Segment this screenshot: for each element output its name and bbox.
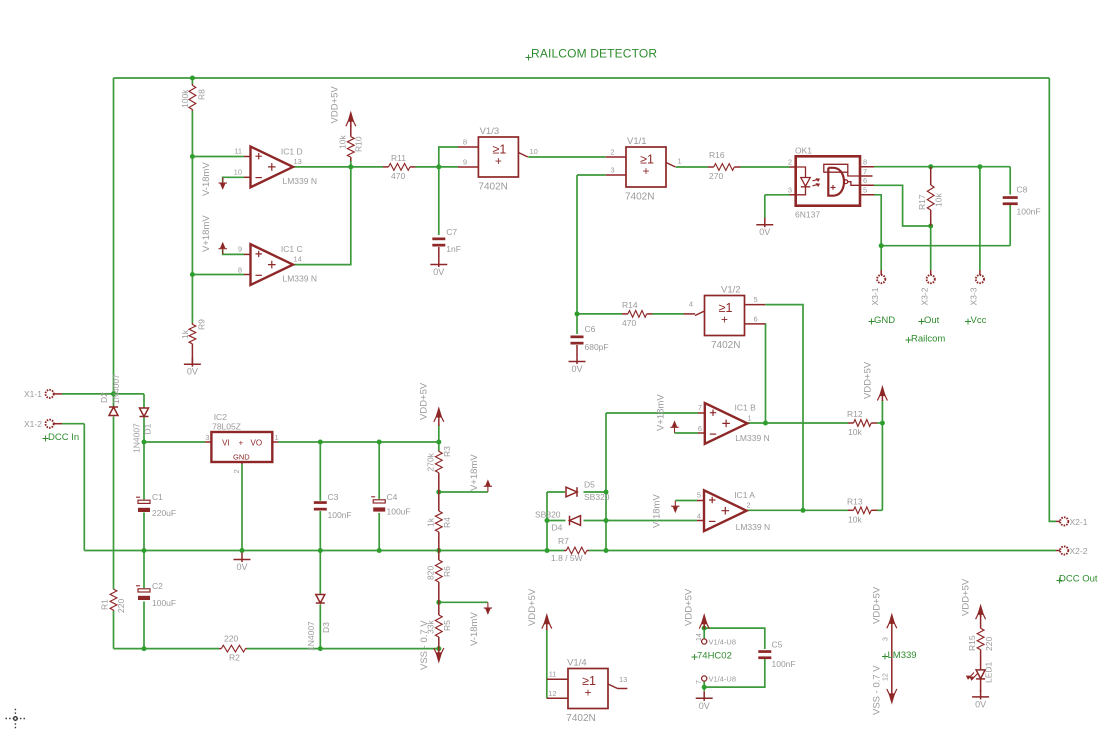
junction 74HC02 gnd [702, 685, 707, 690]
wire D2 top lead [113, 394, 115, 407]
svg-text:Railcom: Railcom [911, 334, 945, 345]
resistor R2 [219, 645, 247, 652]
svg-text:R14: R14 [622, 300, 638, 310]
wire V1/2 pin 5 to R13 node [765, 305, 803, 511]
svg-text:100uF: 100uF [387, 507, 411, 517]
ground under C6 [569, 355, 586, 365]
svg-text:100uF: 100uF [152, 598, 176, 608]
svg-text:10k: 10k [934, 193, 944, 207]
svg-text:VO: VO [251, 439, 263, 448]
svg-text:C2: C2 [152, 581, 163, 591]
wire R11 right [416, 166, 439, 168]
wire IC1C output [293, 167, 351, 265]
svg-text:X3-3: X3-3 [969, 287, 979, 305]
svg-text:VDD+5V: VDD+5V [527, 588, 538, 626]
svg-text:R7: R7 [558, 536, 569, 546]
svg-text:X1-1: X1-1 [24, 389, 42, 399]
optocoupler OK1 6N137 [790, 156, 874, 205]
connector pad X1-1 [46, 390, 54, 398]
svg-text:100nF: 100nF [328, 510, 352, 520]
wire C3 top [319, 442, 321, 501]
svg-text:1k: 1k [426, 517, 436, 527]
junction C3 mid rail [318, 548, 323, 553]
svg-text:1: 1 [748, 414, 752, 423]
wire VO rail [278, 441, 439, 443]
supply VSS arrow under R5 [434, 648, 444, 662]
wire D3 top [319, 551, 321, 595]
diode D5 SB320 [566, 487, 577, 497]
resistor R17 [927, 167, 934, 226]
wire R14 left [577, 313, 622, 315]
wire C7 bottom lead [438, 247, 440, 258]
svg-text:8: 8 [238, 266, 242, 275]
junction X3-1 node [879, 243, 884, 248]
svg-text:Vcc: Vcc [971, 315, 987, 326]
op-amp IC1C [251, 244, 294, 285]
wire 74HC02 gnd pin [703, 681, 705, 691]
wire IC1D output [293, 166, 351, 168]
junction D3 bottom rail [318, 646, 323, 651]
svg-text:9: 9 [238, 245, 242, 254]
wire V+18mV stub [439, 491, 488, 493]
connector pad X3-3 [976, 275, 984, 283]
svg-text:R8: R8 [197, 89, 207, 100]
origin cross Out [919, 319, 925, 325]
wire VDD shaft above ladder [438, 425, 440, 443]
svg-text:12: 12 [548, 689, 556, 698]
svg-text:VDD+5V: VDD+5V [684, 588, 695, 626]
wire X1-1 junction to D1 [114, 393, 145, 395]
pin stub V1/4 pin 11 [547, 678, 568, 680]
sheet origin crosshair [6, 709, 26, 729]
svg-text:VDD+5V: VDD+5V [863, 361, 874, 399]
svg-text:C1: C1 [152, 492, 163, 502]
net label arrow V+18mV at R3 R4 node [484, 481, 492, 492]
origin cross DCC Out [1057, 578, 1063, 584]
pin stub IC1C pin 9 [244, 253, 251, 255]
svg-text:1.8 / 5W: 1.8 / 5W [551, 553, 583, 563]
svg-text:V1/4-U8: V1/4-U8 [709, 675, 737, 684]
supply VDD+5V arrow LM339 power [887, 615, 897, 658]
junction R6 R5 node [436, 600, 441, 605]
resistor R9 [189, 323, 196, 364]
svg-text:V1/4: V1/4 [567, 658, 587, 669]
svg-text:V-18mV: V-18mV [201, 162, 212, 196]
wire X1-2 stub [62, 423, 84, 425]
wire D2 to R1 [113, 417, 115, 590]
svg-text:7402N: 7402N [478, 182, 507, 193]
wire node A vertical [546, 492, 548, 551]
wire V1/1 pin 3 left [577, 174, 606, 176]
wire V1/4 inputs to VDD [546, 629, 548, 698]
svg-text:0V: 0V [433, 267, 444, 277]
wire IC1A output [744, 509, 848, 511]
wire mid rail left [84, 550, 564, 552]
wire IC1B pin 6 stub [675, 432, 699, 434]
svg-text:3: 3 [610, 166, 614, 175]
svg-text:LM339 N: LM339 N [283, 274, 318, 284]
pin stub V1/2 pin 5 [745, 304, 766, 306]
wire R11 left [351, 166, 383, 168]
svg-text:1N4007: 1N4007 [111, 374, 121, 404]
supply VDD+5V arrow above V1/4 [542, 615, 552, 630]
svg-text:V1/2: V1/2 [721, 285, 741, 296]
junction R10 output node [348, 164, 353, 169]
junction C4 mid rail [377, 548, 382, 553]
junction R3 R4 node [436, 490, 441, 495]
pin stub X3-1 [880, 270, 882, 275]
wire IC1B output to R12 [745, 422, 849, 424]
svg-text:5: 5 [754, 295, 758, 304]
svg-text:220: 220 [984, 637, 994, 651]
junction node A D4 [545, 518, 550, 523]
svg-text:C8: C8 [1017, 185, 1028, 195]
diode D2 1N4007 [109, 407, 118, 416]
svg-text:X2-1: X2-1 [1070, 517, 1088, 527]
svg-text:R15: R15 [967, 635, 977, 651]
svg-text:0V: 0V [975, 699, 986, 709]
svg-text:270k: 270k [426, 452, 436, 471]
wire C3 bottom [319, 511, 321, 551]
wire C7 top [438, 167, 440, 235]
LED LED1 [967, 655, 986, 692]
wire OK1 pin3 down to gnd [764, 195, 766, 218]
svg-text:R9: R9 [197, 319, 207, 330]
wire X1-1 to left rail [62, 393, 114, 395]
wire R8 top lead [191, 78, 193, 84]
junction node A R7 [545, 548, 550, 553]
capacitor C7 [432, 238, 445, 247]
wire V1/1 out to R16 [676, 166, 708, 168]
svg-text:D2: D2 [99, 392, 109, 403]
wire IC1D pin 10 [223, 177, 244, 182]
origin cross title [526, 55, 532, 61]
svg-text:LM339 N: LM339 N [735, 433, 770, 443]
junction C1 mid rail [142, 548, 147, 553]
wire VDD shaft above R12 [881, 400, 883, 423]
wire IC1A pin 5 stub [675, 500, 697, 502]
svg-text:10k: 10k [848, 515, 862, 525]
wire V1/2 pin 6 to IC1B out [764, 324, 766, 423]
wire IC1D node to IC1C node [191, 157, 193, 275]
svg-text:11: 11 [549, 670, 557, 679]
diode D1 1N4007 [140, 408, 149, 417]
svg-text:V-18mV: V-18mV [652, 494, 663, 528]
svg-text:D3: D3 [321, 622, 331, 633]
svg-text:220: 220 [224, 634, 238, 644]
junction IC2 gnd mid rail [240, 548, 245, 553]
capacitor C3 [314, 501, 327, 510]
svg-text:220: 220 [116, 599, 126, 613]
svg-text:0V: 0V [187, 367, 198, 377]
wire R12 to VDD node [877, 422, 882, 424]
net label arrow V+18mV at IC1C pin 9 [219, 243, 227, 254]
svg-text:1nF: 1nF [446, 244, 461, 254]
wire C6 top [576, 314, 578, 334]
svg-text:6N137: 6N137 [795, 210, 820, 220]
junction R5 bottom rail [436, 646, 441, 651]
svg-text:R11: R11 [391, 153, 406, 163]
wire R12 node down to R13 [881, 423, 883, 510]
wire R16 to OK1 pin 2 [741, 166, 791, 168]
svg-text:100k: 100k [180, 89, 190, 108]
svg-text:10: 10 [234, 168, 242, 177]
svg-text:+: + [584, 686, 591, 700]
svg-text:1k: 1k [180, 329, 190, 339]
resistor R3 [435, 451, 442, 493]
wire 74HC02 loop bottom [704, 658, 765, 688]
voltage regulator IC2 78L05Z [205, 432, 278, 464]
net label arrow V-18mV at IC1D pin 10 [219, 178, 227, 189]
wire mid rail right [589, 550, 1056, 552]
svg-text:100nF: 100nF [1017, 207, 1041, 217]
svg-text:+: + [495, 154, 502, 168]
resistor R6 [435, 551, 442, 603]
wire R14 right [653, 313, 684, 315]
wire R10 bottom lead [350, 161, 352, 167]
svg-text:270: 270 [709, 171, 723, 181]
wire right rail to X2-1 [1049, 78, 1056, 521]
pin stub V1/4 output [618, 688, 628, 690]
wire node B vertical [605, 413, 607, 551]
net label arrow V+18mV at IC1B pin 6 [670, 422, 678, 433]
junction R11 C7 node [436, 164, 441, 169]
pin stub V1/2 pin 6 [745, 323, 766, 325]
wire R3 ladder top node [438, 442, 440, 451]
svg-text:2: 2 [610, 148, 614, 157]
junction D1 VI node [142, 440, 147, 445]
wire 74HC02 loop [704, 628, 765, 649]
svg-text:6: 6 [754, 315, 758, 324]
wire C4 bottom [378, 513, 380, 551]
junction node B D4 [604, 518, 609, 523]
svg-text:C7: C7 [446, 227, 457, 237]
svg-text:470: 470 [622, 318, 636, 328]
connector pad X3-2 [927, 275, 935, 283]
wire R8 to IC1D node [191, 111, 193, 157]
connector pad X2-2 [1060, 546, 1068, 554]
wire R1 to bottom rail [113, 611, 115, 649]
svg-text:0V: 0V [759, 227, 770, 237]
svg-text:7402N: 7402N [625, 192, 654, 203]
capacitor C4 [371, 497, 385, 512]
wire X3-1 drop [880, 246, 882, 270]
origin cross GND [869, 319, 875, 325]
wire bottom rail right [247, 648, 439, 650]
pin stub IC1D pin 10 [244, 176, 251, 178]
wire R9 top lead [191, 275, 193, 324]
svg-text:3: 3 [883, 637, 890, 641]
svg-text:100nF: 100nF [772, 659, 796, 669]
svg-text:7402N: 7402N [711, 340, 740, 351]
junction IC1C input node [190, 272, 195, 277]
pin stub V1/3 pin 8 [458, 146, 478, 148]
svg-text:VSS - 0.7 V: VSS - 0.7 V [419, 620, 430, 670]
svg-text:LED1: LED1 [984, 661, 994, 683]
svg-text:R1: R1 [100, 599, 110, 610]
wire 74HC02 vdd drop [703, 627, 705, 639]
supply VSS arrow LM339 power [887, 658, 897, 703]
svg-text:R10: R10 [354, 136, 364, 152]
wire VI [144, 441, 205, 443]
pin stub V1/1 pin 2 [606, 156, 626, 158]
svg-text:9: 9 [463, 158, 467, 167]
resistor R12 [848, 420, 877, 427]
pin stub X1-1 [54, 393, 62, 395]
power pin V1 P VCC [702, 639, 707, 644]
wire IC1B pin 7 [606, 412, 698, 414]
svg-text:+: + [642, 164, 649, 178]
NOR gate V1/1 [626, 147, 666, 187]
svg-text:VSS - 0.7 V: VSS - 0.7 V [872, 665, 883, 715]
svg-text:V+18mV: V+18mV [469, 454, 480, 491]
ground under IC2 [234, 553, 251, 563]
svg-text:0V: 0V [699, 701, 710, 711]
wire V1/3 out to V1/1 pin 2 [528, 156, 606, 158]
wire C2 top [143, 551, 145, 589]
supply VDD+5V arrow above 74HC02 power [699, 615, 709, 629]
svg-text:R3: R3 [442, 446, 452, 457]
svg-text:R4: R4 [442, 517, 452, 528]
wire D3 bottom [319, 605, 321, 649]
connector pad X2-1 [1060, 517, 1068, 525]
svg-text:LM339 N: LM339 N [283, 176, 318, 186]
junction X1-1 left rail [111, 391, 116, 396]
resistor R1 [110, 589, 117, 611]
svg-text:11: 11 [234, 147, 242, 156]
pin stub V1/4 pin 12 [547, 697, 568, 699]
junction R3 VO rail [436, 440, 441, 445]
svg-text:4: 4 [697, 512, 701, 521]
pin stub V1/1 pin 3 [606, 174, 626, 176]
wire X3-2 drop [930, 226, 932, 270]
wire C8 top lead [1009, 167, 1011, 195]
svg-text:V-18mV: V-18mV [469, 612, 480, 646]
wire OK1 pin 5 [874, 195, 881, 246]
svg-text:R5: R5 [442, 620, 452, 631]
resistor R4 [435, 492, 442, 551]
svg-text:V1/3: V1/3 [480, 126, 500, 137]
diode D3 1N4007 [316, 595, 325, 604]
capacitor C8 [1003, 196, 1018, 205]
wire top rail [114, 77, 1050, 79]
wire X1-2 down [83, 424, 85, 551]
junction R4 mid rail [436, 548, 441, 553]
wire C1 bottom [143, 513, 145, 551]
junction C3 VO rail [318, 440, 323, 445]
svg-text:V1/1: V1/1 [627, 136, 647, 147]
wire OK1 pin 6 [874, 185, 931, 226]
op-amp IC1D [251, 147, 294, 188]
svg-text:Out: Out [924, 315, 940, 326]
svg-text:74HC02: 74HC02 [697, 651, 732, 662]
ground under R9 [184, 357, 201, 367]
wire IC1D pin 11 [192, 156, 244, 158]
pin stub X2-2 [1056, 550, 1060, 552]
svg-text:2: 2 [232, 469, 241, 473]
svg-text:680pF: 680pF [585, 342, 609, 352]
wire OK1 pin 3 [765, 194, 790, 196]
pin stub IC1D pin 11 [244, 156, 251, 158]
pin stub X3-2 [930, 270, 932, 275]
pin stub V1/3 pin 9 [458, 166, 478, 168]
svg-text:78L05Z: 78L05Z [212, 422, 241, 432]
capacitor C5 [758, 650, 771, 659]
svg-text:0V: 0V [571, 364, 582, 374]
svg-text:SB320: SB320 [584, 492, 610, 502]
svg-text:DCC Out: DCC Out [1059, 574, 1098, 585]
wire C1 top [143, 442, 145, 500]
svg-text:X3-1: X3-1 [870, 287, 880, 305]
svg-text:VDD+5V: VDD+5V [872, 586, 883, 624]
svg-text:13: 13 [619, 675, 627, 684]
supply VDD+5V arrow above R12 [877, 387, 887, 401]
svg-text:3: 3 [788, 186, 792, 195]
svg-text:R12: R12 [847, 409, 863, 419]
wire D5 right lead [584, 491, 607, 493]
junction IC1D input node [190, 154, 195, 159]
svg-text:2: 2 [788, 158, 792, 167]
svg-text:X3-2: X3-2 [920, 287, 930, 305]
wire D4 left lead [547, 520, 566, 522]
pin stub IC1B pin 6 [698, 432, 705, 434]
pin stub X1-2 [54, 423, 62, 425]
svg-text:8: 8 [463, 138, 467, 147]
wire C6 bottom lead [576, 345, 578, 355]
svg-text:R6: R6 [442, 566, 452, 577]
diode D4 SB320 [570, 516, 581, 526]
pin stub IC1B pin 7 [698, 412, 705, 414]
resistor R13 [848, 507, 877, 514]
origin cross DCC In [43, 436, 49, 442]
svg-text:5: 5 [697, 491, 701, 500]
ground under LED1 [972, 690, 989, 700]
svg-text:4: 4 [689, 300, 693, 309]
svg-text:IC2: IC2 [214, 412, 228, 422]
svg-text:10k: 10k [848, 427, 862, 437]
svg-text:X1-2: X1-2 [24, 419, 42, 429]
svg-text:D4: D4 [552, 523, 563, 533]
NOR gate V1/2 [705, 296, 745, 336]
junction C4 VO rail [377, 440, 382, 445]
capacitor C6 [571, 336, 584, 345]
svg-text:C6: C6 [585, 324, 596, 334]
svg-text:X2-2: X2-2 [1070, 546, 1088, 556]
svg-text:12: 12 [883, 673, 890, 681]
junction X3-3 pin8 rail [977, 164, 982, 169]
junction R8 top rail [190, 76, 195, 81]
resistor R15 [977, 615, 984, 655]
ground under OK1 pin 3 [756, 218, 773, 228]
svg-text:LM339 N: LM339 N [736, 522, 771, 532]
junction R17 bottom [928, 224, 933, 229]
svg-text:D5: D5 [584, 480, 595, 490]
wire IC1C pin 9 [223, 250, 244, 255]
net label arrow V-18mV at R6 R5 node [484, 603, 492, 614]
op-amp IC1A [704, 490, 747, 531]
svg-text:VI: VI [222, 439, 230, 448]
junction V1/2 pin5 IC1A out [801, 508, 806, 513]
resistor R16 [708, 164, 741, 171]
junction R12 VDD node [880, 421, 885, 426]
wire V1/1 pin3 down to R14 node [576, 175, 578, 314]
wire to V1/3 pin 8 [439, 147, 458, 167]
capacitor C1 [136, 497, 150, 512]
svg-text:C4: C4 [387, 492, 398, 502]
origin cross LM339 [882, 654, 888, 660]
net label arrow V-18mV at IC1A pin 5 [671, 501, 679, 512]
wire IC2 GND pin [241, 464, 243, 551]
